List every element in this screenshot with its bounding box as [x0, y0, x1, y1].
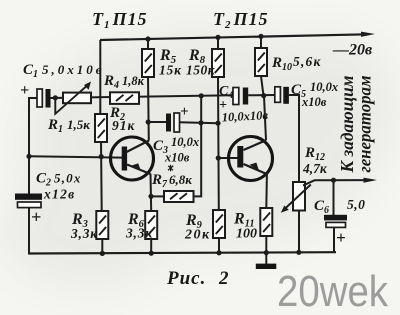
wire: T2 base wire: [218, 157, 237, 159]
wire: R12 bottom to ground rail: [298, 211, 300, 253]
wire: R2 bottom to R3 through base node: [100, 141, 103, 211]
junction: C6 tap on output: [331, 178, 336, 183]
capacitor C6 plate bottom (hollow): [326, 222, 346, 227]
resistor R7 body: [164, 191, 194, 202]
resistor R11: [260, 208, 272, 236]
resistor R4 body: [110, 92, 139, 104]
resistor R1 (variable) body: [63, 93, 91, 104]
capacitor C3 plate left (solid): [166, 114, 171, 132]
transistor Q2 (T2) circle: [229, 137, 273, 181]
wire: rail to R5: [147, 39, 149, 49]
wire: signal wire A from C1 to C4: [51, 95, 234, 98]
wire: R1 wiper tail: [55, 85, 87, 114]
wire: C2 bottom to ground rail corner: [28, 208, 30, 255]
resistor R1 wiper arrow head: [84, 82, 91, 90]
wire: rail to R10: [260, 36, 262, 48]
wire: left vertical wire C1 to C2: [28, 98, 30, 195]
junction: base node on R8 line: [215, 121, 220, 126]
junction: bias node on T1 base wire: [99, 154, 104, 159]
junction: R6 at rail: [149, 251, 154, 256]
svg-text:+: +: [31, 207, 41, 227]
svg-text:Т2П15: Т2П15: [213, 9, 269, 31]
junction: feedback tap on wire A: [199, 93, 204, 98]
wire: -20V supply rail: [100, 32, 375, 40]
svg-text:20wek: 20wek: [277, 267, 389, 315]
wire: C1 left lead: [28, 97, 37, 99]
wire: rail left drop to R2: [99, 40, 101, 114]
svg-text:10,0х10в: 10,0х10в: [221, 108, 268, 124]
junction: R11/ground at rail: [264, 250, 269, 255]
svg-text:Т1П15: Т1П15: [92, 9, 148, 31]
capacitor C5 plate right (solid): [283, 87, 289, 104]
junction: T2 base tap: [216, 155, 221, 160]
svg-text:х10в: х10в: [164, 151, 190, 165]
wire: R7 left lead: [151, 195, 164, 197]
svg-text:150к: 150к: [186, 63, 216, 78]
svg-text:х12в: х12в: [43, 187, 75, 202]
transistor Q2 emitter stroke with arrow to base: [244, 164, 268, 174]
wire: R8 bottom long line to R9: [217, 77, 220, 210]
resistor R6: [145, 211, 157, 239]
wire: bottom ground rail: [28, 252, 336, 253]
transistor Q2 base bar: [237, 146, 243, 168]
transistor Q1 base bar: [122, 147, 127, 171]
capacitor C2 plate top (solid): [15, 194, 42, 200]
svg-text:100: 100: [236, 227, 257, 242]
svg-text:—20в: —20в: [332, 42, 372, 59]
junction: emitter node with R7: [148, 194, 153, 199]
capacitor C4 plate right (solid): [243, 88, 248, 105]
wire: R3 bottom to ground rail: [101, 239, 103, 254]
wire: R11 to ground rail: [265, 236, 267, 253]
svg-text:4,7к: 4,7к: [302, 161, 328, 176]
svg-text:10,0х: 10,0х: [171, 135, 199, 149]
transistor Q1 (T1) circle: [111, 137, 154, 180]
junction: R1 wiper tap on wire A: [53, 95, 58, 100]
wire: C3 to T2 base node: [180, 121, 219, 124]
junction: T2 collector node: [261, 93, 266, 98]
wire: T1 emitter down to R6/R7 node: [150, 174, 153, 211]
transistor Q2 collector stroke: [244, 140, 267, 150]
junction: R5 top on rail: [145, 36, 150, 41]
resistor R8: [212, 49, 224, 77]
wire: R9 to ground rail: [218, 238, 220, 253]
junction: R3 at rail: [100, 251, 105, 256]
resistor R3: [96, 211, 108, 239]
capacitor C6 plate top (solid): [324, 215, 347, 221]
capacitor C4 plate left (hollow): [233, 88, 239, 105]
resistor R12 wiper arrow: [283, 185, 311, 211]
junction: left input node: [26, 154, 31, 159]
resistor R12 (variable) body: [293, 182, 305, 211]
junction: T1 collector to C3: [146, 119, 151, 124]
svg-text:5,0: 5,0: [347, 197, 365, 212]
junction: R10 top on rail: [258, 34, 263, 39]
resistor R10: [255, 48, 267, 76]
svg-text:20к: 20к: [184, 228, 211, 243]
capacitor C5 plate left (hollow): [275, 87, 281, 103]
wire: C5 to R12 corner: [289, 95, 299, 182]
capacitor C3 plate right (hollow): [174, 113, 180, 132]
wire: R6 to ground rail: [150, 239, 152, 253]
junction: R8 top on rail: [215, 35, 220, 40]
transistor Q1 emitter stroke with arrow to base: [127, 165, 151, 175]
svg-text:15к: 15к: [159, 63, 182, 78]
svg-text:2: 2: [218, 268, 229, 289]
transistor Q1 collector stroke: [127, 141, 150, 153]
svg-text:генераторам: генераторам: [355, 76, 375, 173]
capacitor C1 plate right (solid): [46, 89, 51, 108]
junction: R12 at rail: [296, 250, 301, 255]
wire: T2 collector up to output node: [264, 96, 266, 140]
footnote asterisk for C3: [168, 165, 173, 172]
svg-text:5,6к: 5,6к: [293, 54, 322, 69]
svg-text:3,3к: 3,3к: [70, 226, 98, 241]
svg-text:+: +: [20, 82, 29, 99]
svg-text:10,0х: 10,0х: [310, 80, 338, 94]
capacitor C2 plate bottom (hollow): [18, 202, 42, 208]
wire: output node down to C6: [333, 180, 335, 215]
wire: R10 bottom to collector node: [261, 76, 264, 96]
wire: collector node to C3: [148, 121, 166, 123]
svg-text:91к: 91к: [112, 118, 136, 133]
svg-text:3,3к: 3,3к: [125, 226, 153, 241]
wire: T2 emitter down to R11: [265, 174, 268, 208]
wire: T1 collector line: [147, 77, 150, 141]
wire: C6 bottom to ground rail: [333, 227, 335, 252]
resistor R9: [213, 210, 225, 238]
wire: output line with arrow: [303, 180, 366, 185]
resistor R5: [142, 49, 154, 77]
svg-text:х10в: х10в: [301, 95, 327, 109]
wire: T1 base wire: [29, 156, 123, 157]
junction: C4 tap on C3 output: [198, 120, 203, 125]
junction: R9 at rail: [216, 250, 221, 255]
svg-text:+: +: [336, 228, 346, 247]
svg-text:+: +: [180, 104, 189, 120]
wire: R7 right lead up to feedback node: [194, 96, 202, 196]
ground symbol: [265, 253, 267, 264]
resistor R2: [95, 114, 107, 142]
capacitor C1 plate left (hollow): [37, 89, 42, 107]
svg-text:Рис.: Рис.: [166, 268, 206, 289]
wire: C4 to collector node to C5: [248, 94, 275, 96]
wire: rail to R8: [217, 37, 219, 49]
